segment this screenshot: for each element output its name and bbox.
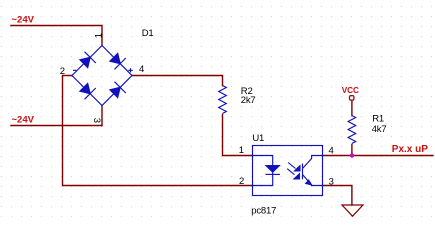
diode D1 top-left (pin2 to pin1) [80,52,96,68]
U1 phototransistor [303,156,323,186]
svg-text:1: 1 [239,145,244,156]
svg-text:VCC: VCC [342,86,359,95]
wire net ~24V top to bridge pin 1 [11,26,102,46]
diode D1 bottom-left (pin2 to pin3) [80,83,96,99]
junction node dot [350,153,354,157]
svg-text:1: 1 [94,33,105,38]
svg-text:4: 4 [329,146,334,157]
wire bridge pin 3 down [101,106,103,126]
svg-text:3: 3 [329,176,334,187]
U1 light arrows [287,163,300,179]
wire bridge pin 4 to R2 top [132,76,223,86]
diode D1 top-right (pin1 to pin4) [110,53,126,69]
svg-text:R1: R1 [372,114,384,125]
bridge rectifier D1 diamond [72,46,132,106]
ground symbol [342,205,363,216]
wire net ~24V bottom [11,125,102,127]
svg-text:D1: D1 [142,28,154,39]
svg-text:~24V: ~24V [12,15,35,26]
wire U1 pin 4 to Px.x uP [323,155,434,157]
opto-coupler U1 box [253,146,323,196]
diode D1 bottom-right (pin3 to pin4) [110,82,126,98]
wire R2 bottom to U1 pin 1 [223,115,253,156]
wire VCC to R1 top [351,101,353,116]
resistor R1 [348,116,356,144]
svg-text:4: 4 [139,64,144,75]
wire R1 bottom to output node [351,145,353,156]
svg-text:2: 2 [239,176,244,187]
svg-text:3: 3 [91,118,102,123]
resistor R2 [219,86,227,114]
VCC power port circle [350,96,354,101]
minus sign at bridge pin 2 [73,69,76,71]
U1 internal LED [253,156,281,186]
svg-text:2: 2 [60,66,65,77]
plus sign at bridge pin 4 [128,68,133,72]
svg-text:pc817: pc817 [251,206,276,217]
svg-text:4k7: 4k7 [372,124,387,135]
wire U1 pin 3 to ground [323,186,352,206]
svg-text:Px.x uP: Px.x uP [392,144,428,155]
net name labels (red) [12,15,429,156]
component text labels [60,28,387,217]
svg-text:~24V: ~24V [12,115,35,126]
svg-text:2k7: 2k7 [241,95,256,106]
svg-text:U1: U1 [252,133,264,144]
wire bridge pin 2 to U1 pin 2 [63,76,253,186]
